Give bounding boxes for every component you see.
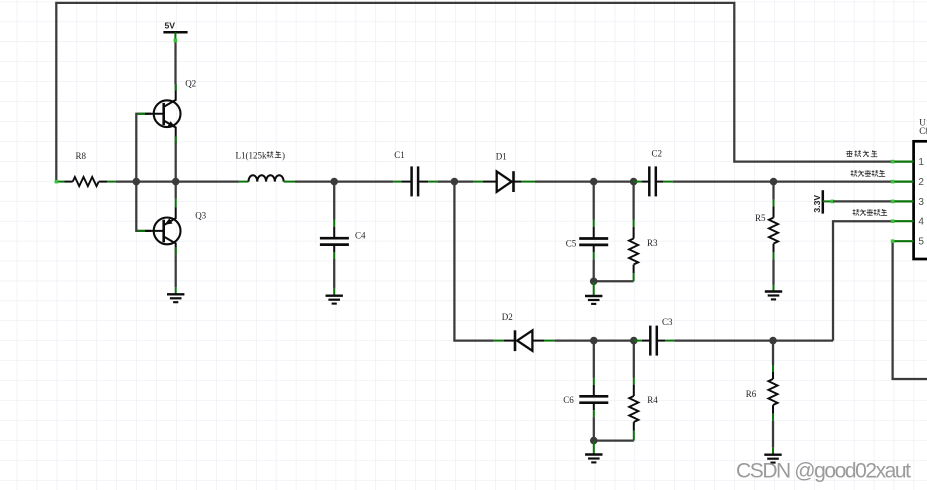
power 3.3V xyxy=(812,190,834,213)
resistor R4 xyxy=(629,341,638,441)
svg-text:4: 4 xyxy=(918,217,924,228)
wire base column joining Q2 and Q3 bases xyxy=(136,114,151,231)
svg-text:R4: R4 xyxy=(647,395,658,405)
label C5 xyxy=(566,238,577,248)
pin 3 xyxy=(891,197,925,208)
wire 3.3V to pin3 xyxy=(833,200,892,202)
pin 5 xyxy=(891,237,925,248)
svg-text:5: 5 xyxy=(918,237,924,248)
power 5V xyxy=(163,21,187,43)
wire feedback loop from R8 left up across top to pin1 of U1 xyxy=(56,3,892,182)
inductor L1 xyxy=(239,175,296,181)
svg-text:Q2: Q2 xyxy=(185,79,196,89)
net label 输入载波正 xyxy=(851,170,886,176)
pin 1 xyxy=(891,157,925,168)
IC U1 box xyxy=(914,141,927,259)
node junction emitter column on rail xyxy=(172,178,180,186)
ground below C5 xyxy=(585,296,602,304)
svg-text:): ) xyxy=(282,151,285,161)
wire node to ground xyxy=(593,441,595,454)
label C8 xyxy=(919,126,927,136)
ground below Q3 xyxy=(167,294,184,302)
label U1 xyxy=(919,118,927,128)
wire node to ground xyxy=(593,282,595,296)
node junction C5/R3 bottom xyxy=(590,278,598,286)
wire C3 to pin4 corner xyxy=(674,339,833,341)
svg-text:D2: D2 xyxy=(502,312,513,322)
label C6 xyxy=(563,395,574,405)
wire C6 bottom node to R4 bottom xyxy=(594,439,634,441)
svg-text:C6: C6 xyxy=(563,395,574,405)
wire Q3 collector to ground xyxy=(175,254,177,294)
svg-text:5V: 5V xyxy=(164,21,175,31)
svg-text:3: 3 xyxy=(918,197,924,208)
diode D1 xyxy=(473,171,535,192)
label C3 xyxy=(662,317,673,327)
ground below C4 xyxy=(326,296,343,304)
wire junction down to C5 xyxy=(593,182,595,227)
svg-text:C2: C2 xyxy=(652,149,663,159)
svg-text:Q3: Q3 xyxy=(195,211,206,221)
label C1 xyxy=(394,150,405,160)
wire junction down to C6 xyxy=(593,341,595,385)
label R6 xyxy=(746,389,757,399)
pin 2 xyxy=(891,177,925,188)
svg-text:2: 2 xyxy=(918,177,924,188)
wire R5 to ground xyxy=(772,259,774,291)
resistor R6 xyxy=(768,341,777,421)
svg-text:C8: C8 xyxy=(919,126,927,136)
wire D2 to C3 junctions xyxy=(555,339,634,341)
wire C5 bottom node to R3 bottom xyxy=(594,280,634,282)
wire R6 to ground xyxy=(772,421,774,455)
svg-text:R6: R6 xyxy=(746,389,757,399)
resistor R8 xyxy=(55,177,116,186)
ground below R6 xyxy=(764,455,781,463)
resistor R5 xyxy=(769,182,778,260)
label D2 xyxy=(502,312,513,322)
label C4 xyxy=(355,231,366,241)
transistor Q2 xyxy=(137,84,180,143)
svg-text:R3: R3 xyxy=(647,238,658,248)
label R8 xyxy=(76,151,87,161)
label R5 xyxy=(755,213,766,223)
node junction C6/R4 bottom xyxy=(590,437,598,445)
label Q2 xyxy=(185,79,196,89)
wire 5V to Q2 collector xyxy=(174,42,176,84)
ground below R5 xyxy=(765,292,782,300)
svg-text:R8: R8 xyxy=(76,151,87,161)
wire pin5 down and out right xyxy=(893,241,927,379)
node junction C5 top xyxy=(590,178,598,186)
svg-text:C1: C1 xyxy=(394,150,405,160)
resistor R3 xyxy=(629,182,638,282)
node junction R3/C2 xyxy=(630,178,638,186)
capacitor C2 xyxy=(634,166,673,196)
node junction R4/C3 xyxy=(630,337,638,345)
ground below C6 xyxy=(585,455,602,463)
pin 4 xyxy=(891,217,925,228)
diode D2 xyxy=(494,330,555,351)
svg-text:C3: C3 xyxy=(662,317,673,327)
capacitor C3 xyxy=(634,326,675,356)
wire C4 to ground xyxy=(333,259,335,296)
node junction C6 top xyxy=(590,337,598,345)
label Q3 xyxy=(195,211,206,221)
node junction Q bases / R8 xyxy=(133,178,141,186)
transistor Q3 xyxy=(137,199,180,255)
node junction R6 xyxy=(769,337,777,345)
label R3 xyxy=(647,238,658,248)
capacitor C6 xyxy=(579,385,608,417)
svg-text:CSDN @good02xaut: CSDN @good02xaut xyxy=(736,460,911,483)
svg-text:R5: R5 xyxy=(755,213,766,223)
wire branch down from rail to D2 row xyxy=(454,182,493,341)
capacitor C4 xyxy=(320,227,349,259)
node junction R5 xyxy=(770,178,778,186)
watermark CSDN @good02xaut xyxy=(736,460,911,483)
wire emitter column Q2 emitter to Q3 emitter through rail xyxy=(175,142,177,199)
net label 载波发生 xyxy=(846,151,877,157)
svg-text:C5: C5 xyxy=(566,238,577,248)
label D1 xyxy=(496,152,507,162)
svg-text:C4: C4 xyxy=(355,231,366,241)
capacitor C1 xyxy=(393,166,437,196)
svg-text:1: 1 xyxy=(918,157,924,168)
svg-text:L1(125k: L1(125k xyxy=(236,151,267,161)
capacitor C5 xyxy=(579,227,608,259)
wire pin4 to bottom rail xyxy=(833,221,892,340)
label R4 xyxy=(647,395,658,405)
wire C5 bottom to node xyxy=(593,259,595,281)
label L1(125k线圈) xyxy=(236,151,286,161)
wire main rail segments y=181.6 xyxy=(116,180,892,182)
label C2 xyxy=(652,149,663,159)
net label 输入载波负 xyxy=(853,209,888,215)
wire junction down to C4 xyxy=(333,182,335,227)
wire C6 bottom to node xyxy=(593,417,595,440)
node junction C1/D2 branch xyxy=(451,178,459,186)
svg-text:D1: D1 xyxy=(496,152,507,162)
node junction L1/C4 xyxy=(330,178,338,186)
svg-text:3.3V: 3.3V xyxy=(812,195,822,213)
